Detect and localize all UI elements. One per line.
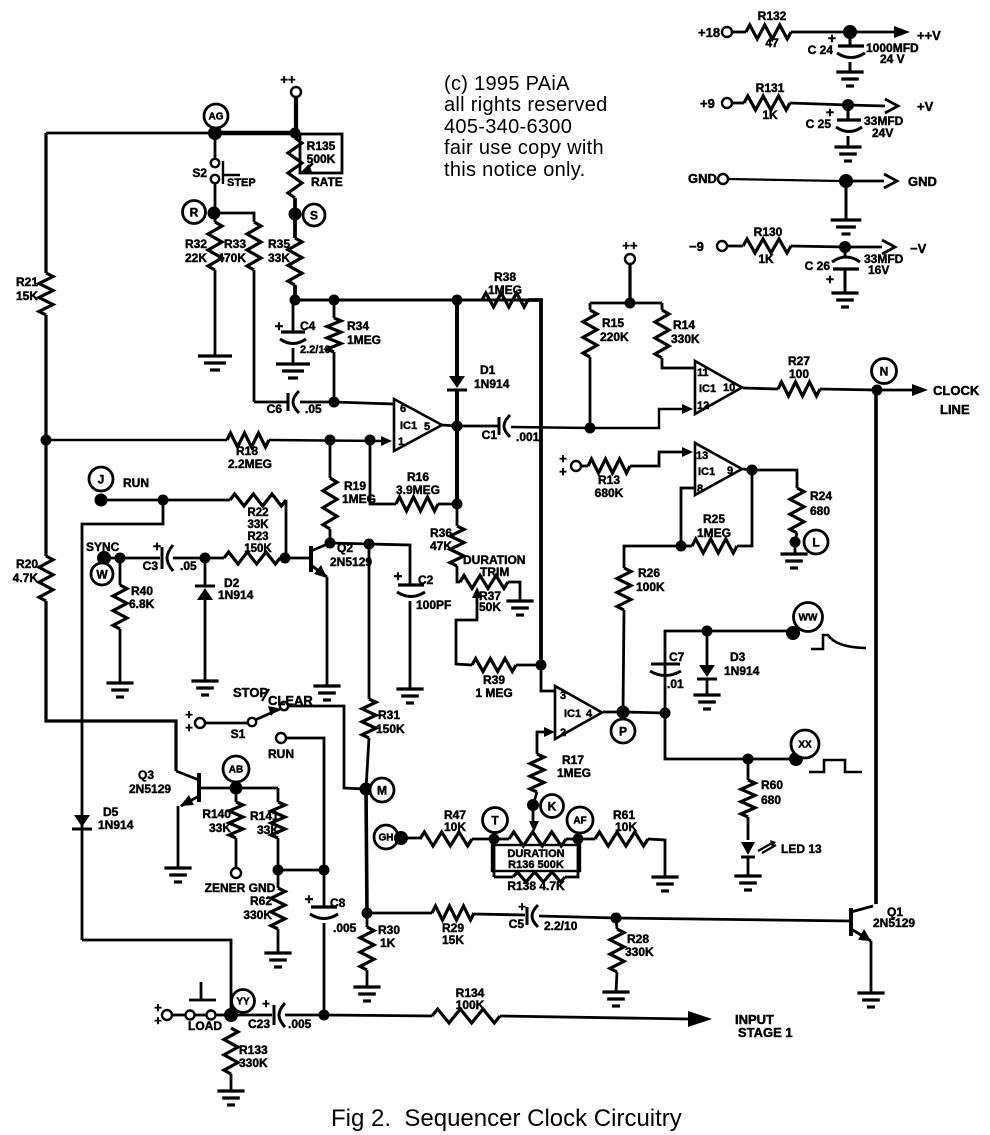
svg-text:9: 9 [727,465,733,477]
svg-text:−9: −9 [689,239,704,254]
svg-text:1MEG: 1MEG [488,283,522,297]
svg-text:R18: R18 [236,444,258,458]
svg-text:4: 4 [586,708,593,720]
svg-text:D3: D3 [730,650,746,664]
svg-text:this notice only.: this notice only. [444,159,585,181]
svg-text:C23: C23 [248,1017,270,1031]
svg-text:6.8K: 6.8K [129,597,155,611]
svg-text:.001: .001 [516,430,540,444]
svg-text:R136 500K: R136 500K [508,859,564,871]
svg-text:100PF: 100PF [416,598,451,612]
svg-text:24 V: 24 V [880,52,905,66]
svg-text:15K: 15K [442,933,464,947]
svg-text:6: 6 [400,403,406,415]
svg-text:+: + [559,464,567,479]
svg-text:R30: R30 [378,923,400,937]
svg-text:R130: R130 [754,225,783,239]
svg-text:R62: R62 [250,894,272,908]
svg-text:R20: R20 [16,557,38,571]
svg-text:50K: 50K [479,600,501,614]
svg-text:YY: YY [236,997,250,1008]
svg-text:15K: 15K [16,289,38,303]
svg-text:+V: +V [917,99,934,114]
svg-text:10: 10 [723,382,735,394]
svg-text:2.2MEG: 2.2MEG [228,457,272,471]
svg-text:T: T [491,813,499,827]
svg-text:D1: D1 [480,363,496,377]
svg-text:C 25: C 25 [806,117,832,131]
svg-text:R28: R28 [627,932,649,946]
svg-text:330K: 330K [239,1056,268,1070]
svg-text:R22: R22 [247,507,268,519]
svg-text:−V: −V [910,241,927,256]
svg-text:R26: R26 [638,566,660,580]
svg-text:330K: 330K [243,908,272,922]
svg-text:680: 680 [761,793,781,807]
svg-text:1K: 1K [380,936,396,950]
svg-text:C6: C6 [267,402,283,416]
svg-text:GND: GND [688,171,717,186]
svg-text:220K: 220K [600,330,629,344]
svg-text:100K: 100K [456,998,485,1012]
svg-text:R19: R19 [344,479,366,493]
svg-text:AF: AF [573,816,586,827]
svg-text:CLEAR: CLEAR [268,693,313,708]
svg-text:C8: C8 [330,896,346,910]
svg-text:10K: 10K [615,820,637,834]
svg-text:C3: C3 [143,559,159,573]
svg-text:47K: 47K [430,539,452,553]
svg-text:2N5129: 2N5129 [129,782,171,796]
svg-text:R: R [190,205,199,219]
svg-text:R135: R135 [307,139,336,153]
svg-text:GH: GH [379,833,394,844]
svg-text:+: + [153,538,161,554]
svg-text:.01: .01 [667,677,684,691]
svg-text:(c) 1995 PAiA: (c) 1995 PAiA [444,73,570,95]
svg-text:C1: C1 [482,428,498,442]
svg-text:150K: 150K [376,722,405,736]
svg-text:R15: R15 [602,316,624,330]
svg-text:IC1: IC1 [564,708,581,720]
svg-text:R33: R33 [224,237,246,251]
svg-text:LINE: LINE [940,402,970,417]
svg-text:S: S [310,208,318,222]
svg-text:680K: 680K [595,486,624,500]
svg-text:R27: R27 [788,354,810,368]
svg-text:1MEG: 1MEG [697,526,731,540]
svg-text:K: K [548,799,557,813]
svg-text:16V: 16V [868,263,889,277]
svg-text:R34: R34 [347,319,369,333]
svg-text:+: + [185,720,193,735]
svg-text:TRIM: TRIM [480,565,509,579]
svg-text:R132: R132 [758,9,787,23]
svg-text:S1: S1 [231,727,246,741]
svg-text:1K: 1K [758,252,774,266]
svg-text:M: M [377,783,387,797]
svg-text:1 MEG: 1 MEG [475,686,512,700]
svg-text:33K: 33K [209,821,231,835]
svg-text:470K: 470K [217,251,246,265]
svg-text:AB: AB [229,765,243,776]
svg-text:RUN: RUN [123,476,149,490]
svg-text:8: 8 [697,483,703,495]
svg-text:5: 5 [424,421,430,433]
svg-text:1MEG: 1MEG [557,766,591,780]
svg-text:R16: R16 [407,470,429,484]
svg-text:R138 4.7K: R138 4.7K [507,879,565,893]
svg-text:R31: R31 [378,708,400,722]
svg-text:IC1: IC1 [699,383,716,395]
svg-text:P: P [619,724,627,738]
svg-text:+: + [262,996,270,1011]
svg-text:1N914: 1N914 [724,664,760,678]
svg-text:ZENER GND: ZENER GND [205,881,276,895]
svg-text:C2: C2 [418,573,434,587]
svg-text:IC1: IC1 [698,466,715,478]
svg-text:XX: XX [798,740,812,751]
svg-text:GND: GND [908,174,937,189]
svg-text:2N5129: 2N5129 [873,916,915,930]
svg-text:1: 1 [398,436,404,448]
svg-text:++: ++ [622,238,638,253]
svg-text:Q3: Q3 [138,768,154,782]
svg-text:R140: R140 [202,807,231,821]
svg-text:CLOCK: CLOCK [933,383,980,398]
svg-text:1K: 1K [762,108,778,122]
svg-text:4.7K: 4.7K [13,571,39,585]
svg-text:100K: 100K [636,580,665,594]
svg-text:R133: R133 [239,1043,268,1057]
svg-text:WW: WW [799,613,818,624]
svg-text:C 24: C 24 [808,43,834,57]
svg-text:R14: R14 [673,318,695,332]
svg-text:10K: 10K [444,820,466,834]
svg-text:D5: D5 [103,805,119,819]
svg-text:R131: R131 [756,81,785,95]
svg-text:2N5129: 2N5129 [330,555,372,569]
svg-text:R38: R38 [494,270,516,284]
svg-text:AG: AG [209,112,224,123]
svg-text:33K: 33K [257,823,279,837]
svg-text:680: 680 [810,504,830,518]
svg-text:+: + [394,568,403,585]
svg-text:R13: R13 [598,473,620,487]
svg-text:C5: C5 [509,917,525,931]
svg-text:R23: R23 [247,531,268,543]
svg-text:33K: 33K [268,251,290,265]
svg-text:C4: C4 [300,319,316,333]
svg-text:R21: R21 [16,275,38,289]
svg-text:STEP: STEP [227,177,256,189]
svg-text:11: 11 [697,367,709,379]
svg-text:++: ++ [280,72,296,87]
svg-text:1N914: 1N914 [474,377,510,391]
svg-text:R35: R35 [268,237,290,251]
svg-text:R24: R24 [810,489,832,503]
svg-text:L: L [812,535,819,549]
svg-text:405-340-6300: 405-340-6300 [444,116,572,138]
svg-text:2.2/10: 2.2/10 [544,919,578,933]
svg-text:+9: +9 [700,96,715,111]
svg-text:22K: 22K [185,251,207,265]
svg-text:+: + [518,899,526,914]
svg-text:R141: R141 [250,809,279,823]
svg-text:R32: R32 [185,237,207,251]
svg-text:330K: 330K [671,332,700,346]
svg-text:3: 3 [560,690,566,702]
svg-text:.05: .05 [305,402,322,416]
svg-text:J: J [98,472,105,486]
svg-text:R25: R25 [703,512,725,526]
svg-text:R36: R36 [430,526,452,540]
svg-text:RATE: RATE [311,175,343,189]
svg-text:330K: 330K [625,945,654,959]
svg-text:STAGE 1: STAGE 1 [738,1025,793,1040]
svg-text:S2: S2 [192,166,207,180]
svg-text:+: + [826,271,834,287]
svg-text:R17: R17 [562,753,584,767]
svg-text:all rights reserved: all rights reserved [444,94,608,116]
svg-text:LED 13: LED 13 [781,842,822,856]
svg-text:N: N [880,364,889,378]
svg-text:24V: 24V [872,126,893,140]
svg-text:1N914: 1N914 [218,588,254,602]
svg-text:.005: .005 [333,921,357,935]
svg-text:3.9MEG: 3.9MEG [396,483,440,497]
svg-text:W: W [96,567,108,581]
svg-text:1N914: 1N914 [98,818,134,832]
svg-text:LOAD: LOAD [188,1019,222,1033]
svg-text:++V: ++V [917,28,941,43]
svg-text:R60: R60 [761,778,783,792]
svg-text:Fig 2. Sequencer Clock Circui: Fig 2. Sequencer Clock Circuitry [331,1105,682,1132]
svg-text:C7: C7 [669,650,685,664]
svg-text:2: 2 [560,727,566,739]
svg-text:.05: .05 [180,559,197,573]
svg-text:1MEG: 1MEG [347,333,381,347]
svg-text:R39: R39 [483,673,505,687]
svg-text:47: 47 [765,36,779,50]
svg-text:IC1: IC1 [400,420,417,432]
svg-text:RUN: RUN [268,747,294,761]
svg-text:33K: 33K [247,519,269,531]
svg-text:+18: +18 [698,25,720,40]
svg-text:12: 12 [697,400,709,412]
svg-text:R40: R40 [131,584,153,598]
svg-text:13: 13 [696,450,708,462]
svg-text:.005: .005 [288,1017,312,1031]
svg-text:100: 100 [789,367,809,381]
svg-text:fair use copy with: fair use copy with [444,137,604,159]
